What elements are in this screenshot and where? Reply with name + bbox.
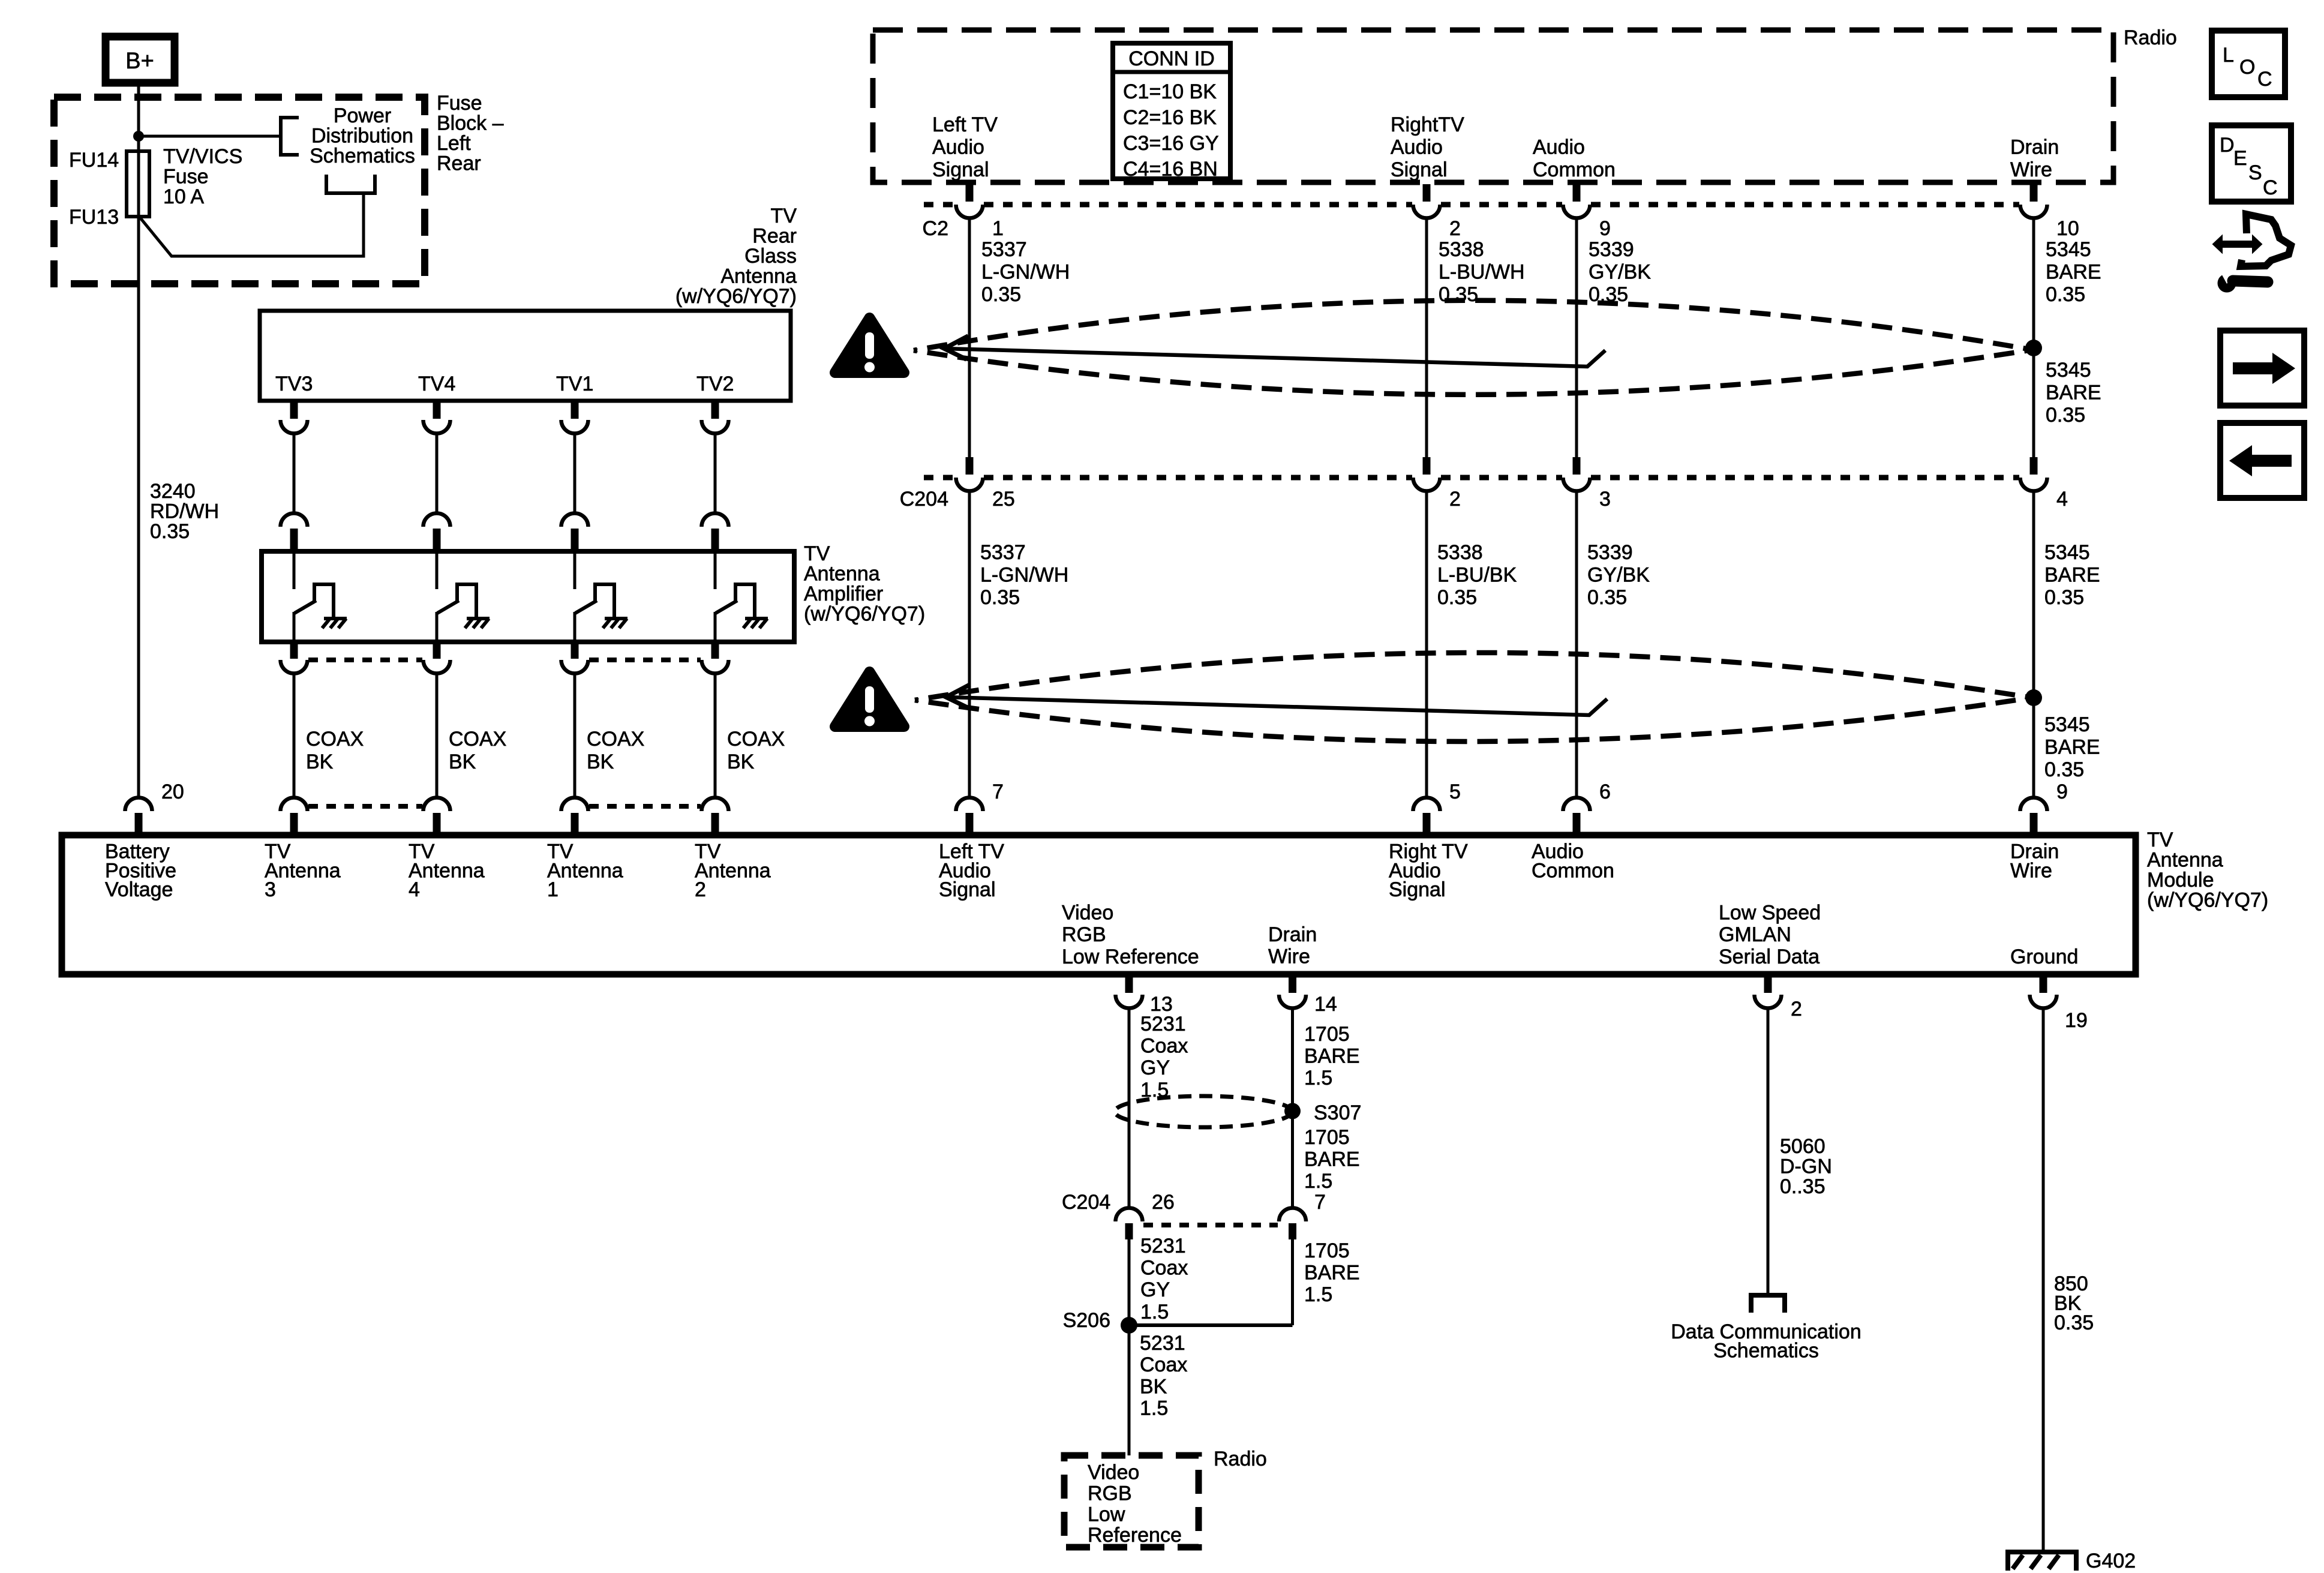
svg-text:Antenna: Antenna [804,563,880,586]
svg-text:5337: 5337 [981,238,1027,261]
svg-text:RD/WH: RD/WH [150,500,219,523]
svg-text:Fuse: Fuse [437,92,482,115]
svg-text:C: C [2263,176,2278,199]
svg-text:GY/BK: GY/BK [1587,564,1650,587]
svg-text:BARE: BARE [1304,1045,1360,1068]
svg-text:3: 3 [1599,488,1611,511]
svg-text:1.5: 1.5 [1140,1301,1169,1323]
svg-text:0.35: 0.35 [2046,404,2085,427]
svg-text:GY: GY [1140,1056,1170,1079]
svg-text:Amplifier: Amplifier [804,583,883,605]
svg-text:O: O [2239,56,2255,79]
svg-text:0.35: 0.35 [980,586,1020,609]
svg-text:Left: Left [437,132,471,155]
svg-text:C204: C204 [900,488,948,511]
svg-text:14: 14 [1314,993,1337,1016]
svg-text:3: 3 [265,878,276,901]
svg-text:Low Speed: Low Speed [1719,902,1821,924]
svg-text:Schematics: Schematics [1713,1340,1819,1362]
svg-text:5338: 5338 [1439,238,1484,261]
svg-text:5345: 5345 [2046,359,2091,382]
svg-text:2: 2 [1791,998,1802,1020]
svg-text:Voltage: Voltage [105,878,173,901]
svg-text:S: S [2248,161,2262,184]
svg-text:1.5: 1.5 [1304,1170,1332,1193]
svg-text:L-GN/WH: L-GN/WH [981,261,1070,284]
svg-text:5060: 5060 [1780,1135,1825,1158]
svg-text:CONN ID: CONN ID [1128,47,1215,70]
svg-text:GMLAN: GMLAN [1719,923,1791,946]
svg-text:5345: 5345 [2044,541,2090,564]
svg-text:Wire: Wire [2010,859,2052,882]
svg-text:2: 2 [1449,217,1461,240]
svg-text:L-BU/WH: L-BU/WH [1439,261,1525,284]
svg-text:C2=16 BK: C2=16 BK [1123,106,1217,129]
svg-text:(w/YQ6/YQ7): (w/YQ6/YQ7) [675,285,797,308]
svg-text:Schematics: Schematics [310,145,415,167]
svg-text:Power: Power [334,104,391,127]
svg-text:BARE: BARE [2046,261,2101,284]
svg-text:Antenna: Antenna [409,859,485,882]
svg-text:Wire: Wire [1268,945,1310,968]
svg-text:Common: Common [1532,859,1614,882]
svg-text:3240: 3240 [150,480,196,503]
svg-text:TV/VICS: TV/VICS [163,145,242,168]
svg-text:Video: Video [1062,902,1113,924]
svg-text:Signal: Signal [932,158,989,181]
svg-text:5345: 5345 [2044,713,2090,736]
svg-text:Common: Common [1533,158,1616,181]
svg-text:Coax: Coax [1140,1353,1187,1376]
svg-text:RGB: RGB [1062,923,1106,946]
svg-text:BK: BK [449,751,476,773]
svg-text:5231: 5231 [1140,1235,1186,1257]
svg-text:Drain: Drain [2010,136,2059,159]
svg-text:10: 10 [2056,217,2079,240]
svg-text:0.35: 0.35 [150,520,190,543]
svg-text:COAX: COAX [727,728,785,751]
svg-text:0.35: 0.35 [2054,1311,2094,1334]
svg-text:L-BU/BK: L-BU/BK [1437,564,1517,587]
svg-text:Reference: Reference [1088,1524,1182,1547]
svg-text:FU13: FU13 [69,206,119,229]
svg-text:C: C [2257,68,2272,91]
svg-text:COAX: COAX [587,728,644,751]
svg-text:BK: BK [727,751,755,773]
svg-text:2: 2 [1449,488,1461,511]
svg-text:Low Reference: Low Reference [1062,945,1199,968]
svg-text:RGB: RGB [1088,1482,1132,1505]
svg-text:BK: BK [1140,1375,1167,1398]
svg-text:Antenna: Antenna [547,859,623,882]
svg-text:9: 9 [2056,781,2068,803]
svg-text:5339: 5339 [1587,541,1633,564]
svg-text:19: 19 [2065,1009,2088,1032]
svg-text:0..35: 0..35 [1780,1175,1825,1198]
svg-text:TV: TV [2147,828,2173,851]
svg-text:0.35: 0.35 [1437,586,1477,609]
svg-text:Audio: Audio [1533,136,1585,159]
svg-text:Fuse: Fuse [163,166,209,188]
svg-text:TV1: TV1 [556,373,593,395]
svg-text:C204: C204 [1062,1191,1110,1214]
svg-text:1: 1 [992,217,1004,240]
svg-text:Module: Module [2147,869,2214,891]
svg-text:G402: G402 [2086,1550,2136,1572]
svg-text:5339: 5339 [1589,238,1634,261]
svg-text:Antenna: Antenna [695,859,771,882]
svg-text:(w/YQ6/YQ7): (w/YQ6/YQ7) [804,603,925,626]
svg-text:Ground: Ground [2010,945,2078,968]
svg-text:BARE: BARE [2044,736,2100,759]
svg-text:5338: 5338 [1437,541,1483,564]
svg-text:0.35: 0.35 [2044,586,2084,609]
svg-text:L-GN/WH: L-GN/WH [980,564,1068,587]
svg-text:4: 4 [409,878,420,901]
svg-text:5345: 5345 [2046,238,2091,261]
svg-text:S307: S307 [1314,1101,1361,1124]
svg-text:GY/BK: GY/BK [1589,261,1651,284]
svg-text:C4=16 BN: C4=16 BN [1123,158,1218,181]
svg-text:2: 2 [695,878,706,901]
svg-text:Rear: Rear [752,225,797,248]
svg-text:Distribution: Distribution [311,125,413,148]
svg-text:1705: 1705 [1304,1023,1350,1046]
svg-text:5231: 5231 [1140,1332,1185,1355]
svg-text:Signal: Signal [1389,878,1446,901]
svg-text:10 A: 10 A [163,185,204,208]
svg-text:BK: BK [306,751,334,773]
svg-text:26: 26 [1152,1191,1175,1214]
svg-text:Audio: Audio [1391,136,1443,159]
svg-text:0.35: 0.35 [2046,283,2085,306]
svg-text:(w/YQ6/YQ7): (w/YQ6/YQ7) [2147,889,2268,912]
svg-text:L: L [2223,44,2234,67]
svg-text:TV3: TV3 [275,373,313,395]
svg-text:Signal: Signal [939,878,996,901]
svg-text:1705: 1705 [1304,1126,1350,1149]
svg-text:4: 4 [2056,488,2068,511]
svg-text:Coax: Coax [1140,1257,1188,1280]
svg-text:COAX: COAX [306,728,364,751]
svg-text:BARE: BARE [1304,1262,1360,1284]
svg-text:Glass: Glass [744,245,797,268]
svg-text:E: E [2233,147,2247,170]
svg-text:0.35: 0.35 [2044,758,2084,781]
svg-text:FU14: FU14 [69,149,119,172]
svg-text:25: 25 [992,488,1015,511]
svg-text:1.5: 1.5 [1304,1283,1332,1306]
svg-text:Drain: Drain [1268,923,1317,946]
svg-text:0.35: 0.35 [981,283,1021,306]
svg-text:9: 9 [1599,217,1611,240]
svg-text:RightTV: RightTV [1391,113,1464,136]
svg-text:1: 1 [547,878,559,901]
svg-text:TV4: TV4 [418,373,455,395]
svg-text:0.35: 0.35 [1587,586,1627,609]
svg-text:GY: GY [1140,1278,1170,1301]
svg-text:TV2: TV2 [696,373,734,395]
svg-text:D-GN: D-GN [1780,1155,1832,1178]
svg-text:TV: TV [804,542,830,565]
svg-text:C3=16 GY: C3=16 GY [1123,132,1219,155]
svg-text:C1=10 BK: C1=10 BK [1123,80,1217,103]
svg-text:Signal: Signal [1391,158,1448,181]
svg-text:1.5: 1.5 [1140,1397,1168,1420]
svg-text:BARE: BARE [2044,564,2100,587]
svg-text:20: 20 [161,781,184,803]
svg-text:Antenna: Antenna [265,859,341,882]
svg-text:Low: Low [1088,1503,1125,1526]
svg-text:Radio: Radio [2124,26,2177,49]
svg-text:S206: S206 [1063,1309,1110,1332]
svg-text:5: 5 [1449,781,1461,803]
svg-text:5337: 5337 [980,541,1026,564]
svg-text:Antenna: Antenna [2147,849,2223,872]
svg-text:7: 7 [992,781,1004,803]
svg-text:COAX: COAX [449,728,506,751]
svg-text:Serial Data: Serial Data [1719,945,1819,968]
svg-text:Audio: Audio [932,136,984,159]
svg-text:Video: Video [1088,1461,1139,1484]
svg-text:B+: B+ [125,49,154,74]
svg-text:BARE: BARE [2046,382,2101,404]
svg-text:1705: 1705 [1304,1239,1350,1262]
svg-text:Radio: Radio [1214,1448,1267,1470]
svg-text:6: 6 [1599,781,1611,803]
svg-text:1.5: 1.5 [1304,1067,1332,1089]
svg-text:D: D [2220,134,2235,157]
svg-text:5231: 5231 [1140,1013,1186,1035]
svg-text:Rear: Rear [437,152,481,175]
svg-text:Block –: Block – [437,112,504,135]
svg-text:Antenna: Antenna [720,265,797,288]
svg-text:C2: C2 [923,217,948,240]
svg-text:TV: TV [771,205,797,227]
svg-text:Wire: Wire [2010,158,2052,181]
svg-text:Left TV: Left TV [932,113,998,136]
svg-text:7: 7 [1314,1191,1326,1214]
svg-text:BK: BK [587,751,614,773]
svg-text:BARE: BARE [1304,1148,1360,1171]
svg-text:Coax: Coax [1140,1035,1188,1058]
